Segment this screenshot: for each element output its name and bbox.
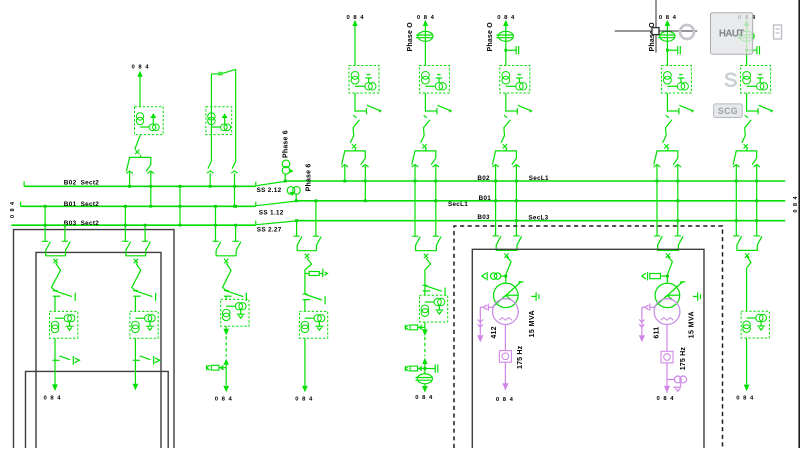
dashed boundary box bbox=[454, 226, 723, 448]
label 084 right edge bbox=[793, 196, 799, 213]
generator G2 aux branch bbox=[667, 376, 687, 391]
feeder W4 label Phase O bbox=[407, 22, 414, 52]
watermark ring bbox=[680, 25, 694, 39]
feeder W5 leg to bus2 bbox=[515, 165, 518, 236]
feeder bay F1 pantograph disconnector bbox=[212, 241, 241, 263]
generator G2 generator circle bbox=[654, 282, 685, 308]
feeder W3 disconnector bbox=[355, 105, 382, 114]
generator G2 exit wire bbox=[664, 363, 670, 393]
label B01 Sect2 bbox=[64, 201, 99, 208]
feeder W6 leg to bus1 bbox=[656, 165, 659, 236]
bus coupler SS 2.27 blade bbox=[256, 219, 298, 225]
svg-text:Phase O: Phase O bbox=[487, 22, 494, 52]
svg-text:HAUT: HAUT bbox=[719, 29, 744, 40]
transformer bay T1 circuit breaker bbox=[51, 263, 60, 291]
feeder bay F2 instrument box bbox=[299, 311, 327, 338]
feeder bay F2 leg from SS 2.27 bbox=[295, 219, 298, 236]
transformer bay T2 exit arrow bbox=[133, 360, 139, 390]
feeder bay F3 earthing switch bbox=[423, 285, 446, 295]
transformer bay T2 wire below box bbox=[134, 338, 136, 360]
svg-text:0 8 4: 0 8 4 bbox=[656, 396, 674, 402]
svg-text:611: 611 bbox=[653, 327, 660, 339]
svg-text:Phase 6: Phase 6 bbox=[306, 164, 313, 192]
svg-text:412: 412 bbox=[491, 326, 498, 338]
feeder W6 exit arrow bbox=[665, 20, 670, 66]
feeder bay F1 leg from bus left bbox=[214, 205, 217, 241]
feeder W6 wire below box bbox=[666, 93, 668, 112]
feeder W4 label 084 bbox=[417, 15, 435, 21]
bus coupler SS 2.12 blade bbox=[256, 181, 285, 186]
svg-text:0 8 4: 0 8 4 bbox=[497, 15, 515, 21]
bus coupler SS 1.12 blade bbox=[256, 201, 296, 206]
transformer bay T2 disconnector bbox=[133, 356, 160, 365]
watermark S letter bbox=[724, 69, 738, 92]
svg-text:0 8 4: 0 8 4 bbox=[793, 196, 799, 213]
feeder W3 label 084 bbox=[346, 15, 364, 21]
feeder bay F1 label 084 bbox=[215, 397, 233, 403]
generator G2 pantograph disconnector bbox=[654, 236, 683, 258]
feeder W1 leg to bus1 bbox=[128, 172, 131, 188]
generator G1 label 15 MVA bbox=[529, 310, 536, 337]
svg-text:0 8 4: 0 8 4 bbox=[417, 15, 435, 21]
generator G2 LV wire bbox=[666, 325, 668, 352]
svg-text:0 8 4: 0 8 4 bbox=[215, 397, 233, 403]
feeder bay F1 wire to box bbox=[225, 296, 227, 299]
label B02 bbox=[477, 175, 490, 182]
busbar B01 Sect2 (left bus 2) bbox=[21, 202, 256, 207]
feeder bay F2 earthing switch bbox=[303, 294, 326, 304]
feeder W4 exit arrow bbox=[423, 20, 428, 66]
generator G2 label id bbox=[653, 327, 660, 339]
generator G1 label 084 bbox=[496, 397, 514, 403]
feeder W7 line trap bbox=[737, 31, 754, 41]
feeder W3 exit arrow bbox=[352, 20, 357, 66]
svg-text:SecL1: SecL1 bbox=[529, 175, 549, 182]
feeder bay F1 earthing switch bbox=[224, 291, 247, 301]
generator G2 LV CT assembly bbox=[642, 304, 655, 311]
svg-text:0 8 4: 0 8 4 bbox=[131, 65, 149, 71]
feeder W5 label Phase O bbox=[487, 22, 494, 52]
feeder bay F3 instrument box bbox=[419, 295, 447, 322]
feeder W4 disconnector bbox=[425, 105, 452, 114]
feeder W6 label 084 bbox=[659, 15, 677, 21]
feeder W4 line trap bbox=[416, 31, 433, 41]
transformer bay T1 pantograph disconnector bbox=[42, 241, 70, 263]
transformer bay T3 instrument box bbox=[741, 311, 769, 338]
label SS 2.27 bbox=[257, 226, 282, 233]
substation inner box 1 bbox=[36, 252, 161, 448]
label SecL1 right bbox=[529, 175, 549, 182]
feeder W7 label 084 bbox=[738, 15, 756, 21]
generator G1 pantograph disconnector bbox=[492, 236, 521, 258]
feeder bay F1 circuit breaker bbox=[223, 263, 232, 291]
label 084 left edge bbox=[10, 201, 16, 218]
bus tie riser x180 bbox=[179, 185, 182, 227]
svg-text:0 8 4: 0 8 4 bbox=[496, 397, 514, 403]
feeder W2 bypass switch bbox=[211, 69, 235, 161]
svg-text:15 MVA: 15 MVA bbox=[529, 310, 536, 337]
feeder bay F3 exit arrow bbox=[422, 386, 428, 393]
generator G2 transformer LV circle bbox=[654, 299, 680, 325]
generator G1 generator circle bbox=[493, 282, 524, 308]
feeder bay F3 circuit breaker jog bbox=[425, 258, 431, 270]
transformer bay T1 leg from bus right bbox=[64, 224, 67, 242]
svg-text:0 8 4: 0 8 4 bbox=[295, 397, 313, 403]
bus coupler SS 2.12 VT circles bbox=[282, 160, 294, 182]
generator G1 LV CT assembly bbox=[480, 304, 493, 311]
busbar B02 Sect2 (left bus 1) bbox=[24, 181, 256, 186]
feeder W7 capacitor tap bbox=[745, 46, 759, 54]
svg-text:B02: B02 bbox=[477, 175, 490, 182]
svg-text:Phase O: Phase O bbox=[649, 22, 656, 52]
feeder W6 line trap bbox=[658, 31, 675, 41]
generator G2 label 084 bbox=[656, 396, 674, 402]
transformer bay T2 leg from bus left bbox=[124, 205, 127, 241]
feeder W3 wire below box bbox=[354, 93, 356, 112]
busbar B03 Sect2 (left bus 3) bbox=[11, 224, 255, 226]
feeder W3 leg to bus1 bbox=[343, 165, 346, 182]
feeder W1 instrument box bbox=[135, 107, 164, 135]
svg-text:SS 2.12: SS 2.12 bbox=[257, 187, 282, 194]
transformer bay T1 leg from bus left bbox=[44, 205, 47, 241]
svg-text:175 Hz: 175 Hz bbox=[517, 345, 524, 369]
feeder W5 capacitor tap bbox=[504, 46, 518, 54]
feeder W6 instrument box bbox=[661, 66, 691, 94]
substation outer box bbox=[14, 230, 175, 448]
feeder W4 wire below box bbox=[424, 93, 426, 112]
feeder bay F3 motor drive bbox=[405, 366, 425, 371]
busbar B01 SecL1 (right bus 2) bbox=[296, 200, 785, 202]
svg-text:0 8 4: 0 8 4 bbox=[659, 15, 677, 21]
svg-text:175 Hz: 175 Hz bbox=[680, 347, 687, 371]
svg-text:0 8 4: 0 8 4 bbox=[736, 395, 754, 401]
feeder W1 circuit breaker bbox=[135, 135, 140, 155]
substation inner box 2 bbox=[26, 371, 169, 448]
feeder bay F1 arrow below box bbox=[223, 326, 229, 335]
transformer bay T1 disconnector bbox=[52, 356, 79, 365]
svg-text:0 8 4: 0 8 4 bbox=[346, 15, 364, 21]
feeder bay F3 flow arrow bbox=[422, 358, 427, 369]
feeder bay F2 fuse and earth bbox=[305, 269, 328, 278]
feeder W5 line trap bbox=[496, 31, 513, 41]
feeder W5 pantograph disconnector bbox=[492, 148, 519, 167]
transformer bay T1 instrument box bbox=[50, 311, 78, 338]
feeder W5 exit arrow bbox=[503, 20, 508, 66]
generator G1 CT assembly bbox=[482, 272, 507, 281]
feeder bay F1 dashed wire bbox=[225, 336, 227, 356]
feeder W3 instrument box bbox=[349, 66, 379, 94]
svg-text:SS 1.12: SS 1.12 bbox=[259, 209, 284, 216]
feeder W7 pantograph disconnector bbox=[733, 148, 760, 167]
feeder W5 circuit breaker bbox=[501, 115, 510, 148]
feeder W5 label 084 bbox=[497, 15, 515, 21]
feeder W7 leg to bus1 bbox=[735, 165, 738, 236]
feeder W5 disconnector bbox=[506, 105, 533, 114]
generator G2 earthing point bbox=[693, 292, 701, 301]
svg-text:0 8 4: 0 8 4 bbox=[415, 395, 433, 401]
feeder bay F2 wire to box bbox=[304, 300, 306, 312]
generator G2 label 175 Hz bbox=[680, 347, 687, 371]
generator G2 LV tap wire bbox=[639, 307, 645, 342]
feeder bay F2 pantograph disconnector bbox=[293, 236, 321, 258]
feeder W1 exit arrow bbox=[137, 71, 142, 107]
svg-text:B01 Sect2: B01 Sect2 bbox=[64, 201, 99, 208]
generator G1 LV tap wire bbox=[477, 307, 483, 342]
svg-text:SecL3: SecL3 bbox=[528, 215, 548, 222]
generator G1 transformer LV circle bbox=[493, 299, 519, 325]
feeder bay F1 motor drive bbox=[207, 365, 227, 370]
label B03 bbox=[477, 214, 490, 221]
svg-text:15 MVA: 15 MVA bbox=[688, 311, 695, 338]
label B02 Sect2 bbox=[64, 180, 99, 187]
feeder W3 pantograph disconnector bbox=[342, 148, 369, 167]
busbar B02 SecL1 (right bus 1) bbox=[285, 180, 785, 182]
feeder W1 leg to bus2 bbox=[149, 172, 152, 208]
generator G2 circuit breaker jog bbox=[667, 257, 672, 283]
busbar B03 SecL3 (right bus 3) bbox=[297, 220, 786, 222]
svg-text:SS 2.27: SS 2.27 bbox=[257, 226, 282, 233]
feeder W1 label 084 bbox=[131, 65, 149, 71]
svg-text:Phase 6: Phase 6 bbox=[282, 130, 289, 158]
feeder bay F1 leg from bus right bbox=[234, 205, 237, 241]
label B03 Sect2 bbox=[64, 220, 99, 227]
feeder W6 disconnector bbox=[667, 105, 694, 114]
svg-text:B03 Sect2: B03 Sect2 bbox=[64, 220, 99, 227]
feeder W7 disconnector bbox=[747, 105, 774, 114]
feeder W1 pantograph disconnector bbox=[126, 155, 154, 174]
feeder W4 leg to bus2 bbox=[434, 165, 437, 236]
transformer bay T1 wire to box bbox=[54, 296, 56, 311]
generator G1 exit wire bbox=[502, 362, 508, 390]
transformer bay T1 exit arrow bbox=[52, 360, 58, 391]
feeder W7 instrument box bbox=[741, 66, 771, 94]
feeder W6 circuit breaker bbox=[663, 115, 672, 148]
feeder bay F3 pantograph disconnector bbox=[412, 236, 441, 258]
feeder W3 leg to bus2 bbox=[364, 165, 367, 202]
feeder W6 capacitor tap bbox=[666, 46, 680, 54]
transformer bay T3 circuit breaker jog bbox=[747, 257, 751, 269]
feeder W6 label Phase O bbox=[649, 22, 656, 52]
feeder W5 wire below box bbox=[505, 93, 507, 112]
feeder W5 leg to bus1 bbox=[494, 165, 497, 236]
feeder bay F3 dashed wire bbox=[424, 337, 426, 356]
feeder bay F2 wire bbox=[304, 270, 306, 294]
transformer bay T2 instrument box bbox=[130, 311, 158, 338]
crosshair cursor bbox=[615, 0, 698, 53]
feeder W5 instrument box bbox=[500, 66, 530, 94]
transformer bay T3 pantograph disconnector bbox=[733, 236, 762, 258]
svg-text:SCG: SCG bbox=[718, 106, 738, 116]
generator G1 circuit breaker jog bbox=[506, 257, 511, 283]
generator G1 label id bbox=[491, 326, 498, 338]
svg-text:SecL1: SecL1 bbox=[448, 201, 468, 208]
feeder W6 leg to bus2 bbox=[676, 165, 679, 236]
feeder bay F1 exit arrow bbox=[223, 386, 229, 393]
label Phase 6 (coupler 1) bbox=[282, 130, 289, 158]
feeder bay F2 exit arrow bbox=[302, 338, 308, 392]
generator G2 excitation transformer bbox=[661, 351, 673, 363]
feeder W7 leg to bus2 bbox=[755, 165, 758, 236]
feeder W7 circuit breaker bbox=[742, 115, 751, 148]
feeder bay F2 label 084 bbox=[295, 397, 313, 403]
svg-text:B03: B03 bbox=[477, 214, 490, 221]
feeder bay F3 wire bbox=[424, 270, 426, 295]
svg-text:Phase O: Phase O bbox=[407, 22, 414, 52]
svg-text:S: S bbox=[724, 69, 738, 92]
transformer bay T1 label 084 bbox=[43, 396, 61, 402]
generator G1 label 175 Hz bbox=[517, 345, 524, 369]
feeder bay F1 instrument box bbox=[221, 299, 249, 326]
feeder bay F3 drive below box bbox=[405, 322, 425, 330]
svg-text:0 8 4: 0 8 4 bbox=[43, 396, 61, 402]
generator G1 excitation transformer bbox=[499, 351, 511, 363]
feeder bay F3 arrow bbox=[422, 329, 428, 336]
feeder W7 wire below box bbox=[746, 93, 748, 112]
bus coupler SS 1.12 VT circles bbox=[287, 187, 300, 203]
feeder W4 circuit breaker bbox=[421, 115, 430, 148]
feeder bay F3 label 084 bbox=[415, 395, 433, 401]
feeder W7 exit arrow bbox=[744, 20, 749, 66]
feeder W4 leg to bus1 bbox=[414, 165, 417, 236]
transformer bay T3 label 084 bbox=[736, 395, 754, 401]
feeder W2 disconnector right bbox=[231, 161, 238, 173]
transformer bay T2 leg from bus right bbox=[144, 224, 147, 242]
transformer bay T3 exit arrow bbox=[744, 338, 750, 391]
transformer bay T2 earthing switch bbox=[133, 291, 156, 301]
generator G2 label 15 MVA bbox=[688, 311, 695, 338]
generator G1 LV wire bbox=[504, 325, 506, 351]
watermark page icon bbox=[774, 25, 782, 39]
watermark SCG box bbox=[714, 104, 743, 118]
generator G1 earthing point bbox=[531, 292, 539, 301]
watermark HAUT box bbox=[711, 13, 753, 55]
label SecL1 mid bbox=[448, 201, 468, 208]
label SS 2.12 bbox=[257, 187, 282, 194]
generator G2 CT assembly bbox=[642, 272, 669, 281]
feeder bay F2 circuit breaker jog bbox=[305, 258, 312, 270]
feeder W2 leg to bus2 bbox=[233, 173, 236, 208]
feeder W2 instrument box bbox=[206, 107, 232, 135]
feeder W6 pantograph disconnector bbox=[654, 148, 681, 167]
feeder W4 pantograph disconnector bbox=[412, 148, 439, 167]
transformer bay T2 pantograph disconnector bbox=[122, 241, 150, 263]
label SecL3 bbox=[528, 215, 548, 222]
feeder bay F3 line trap bbox=[416, 369, 433, 386]
feeder W4 instrument box bbox=[419, 66, 449, 94]
transformer bay T1 wire below box bbox=[54, 338, 56, 360]
svg-text:B01: B01 bbox=[479, 195, 492, 202]
feeder W3 circuit breaker bbox=[350, 115, 359, 148]
label B01 bbox=[479, 195, 492, 202]
svg-text:0 8 4: 0 8 4 bbox=[10, 201, 16, 218]
label SS 1.12 bbox=[259, 209, 284, 216]
svg-text:B02 Sect2: B02 Sect2 bbox=[64, 180, 99, 187]
feeder bay F2 leg from bus2 bbox=[315, 199, 318, 236]
transformer bay T2 wire to box bbox=[134, 296, 136, 311]
transformer bay T2 circuit breaker bbox=[132, 263, 141, 291]
image border right bbox=[798, 0, 800, 448]
feeder bay F1 flow arrow bbox=[224, 359, 229, 385]
transformer bay T1 earthing switch bbox=[53, 291, 75, 301]
feeder W2 leg to bus1 bbox=[209, 173, 212, 188]
generator plant box bbox=[472, 249, 704, 448]
label Phase 6 (coupler 2) bbox=[306, 164, 313, 192]
feeder W2 disconnector left bbox=[207, 161, 214, 173]
feeder bay F3 capacitor tap bbox=[424, 364, 438, 372]
transformer bay T3 wire bbox=[746, 268, 748, 311]
